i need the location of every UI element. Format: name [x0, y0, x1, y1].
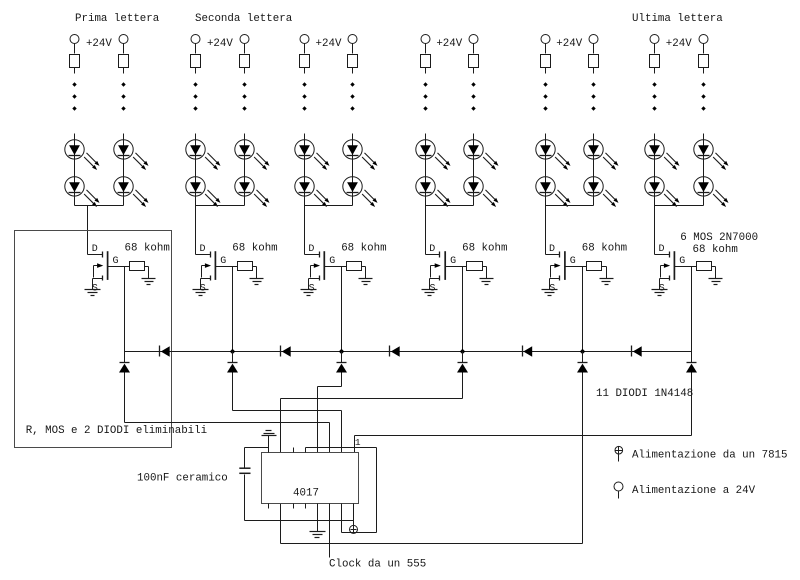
ground (4017 bottom pin) [310, 532, 326, 538]
resistor R6a (LED series) [650, 55, 660, 68]
svg-text:+24V: +24V [316, 38, 342, 50]
LED D5a1 [536, 140, 571, 170]
svg-text:R, MOS e 2 DIODI eliminabili: R, MOS e 2 DIODI eliminabili [26, 425, 207, 437]
resistor Rg1 68 kohm [130, 262, 145, 271]
svg-text:Prima lettera: Prima lettera [75, 13, 160, 25]
svg-text:D: D [200, 244, 206, 255]
+24V supply terminal column 4a [421, 35, 430, 44]
wire (column1 diode to 4017) [125, 373, 330, 453]
wire [87, 206, 89, 255]
svg-text:D: D [549, 244, 555, 255]
resistor R3b (LED series) [348, 55, 358, 68]
svg-text:D: D [659, 244, 665, 255]
svg-text:11 DIODI 1N4148: 11 DIODI 1N4148 [596, 388, 693, 400]
wire [244, 134, 246, 206]
wire [352, 134, 354, 206]
7815 supply terminal (+ in circle) [350, 525, 358, 533]
resistor R3a (LED series) [300, 55, 310, 68]
+24V supply terminal column 3b [348, 35, 357, 44]
wire [691, 267, 693, 352]
wire [317, 504, 319, 532]
LED D5a2 [536, 177, 571, 207]
wire [74, 134, 76, 206]
wire [462, 352, 464, 363]
n-MOSFET Q6 (2N7000) [655, 251, 692, 289]
wire [426, 205, 474, 207]
dashed enclosure box (eliminable parts) [15, 231, 172, 448]
diode D4 (bus, 1N4148) [523, 346, 533, 357]
wire [654, 44, 656, 54]
wire [253, 267, 257, 279]
svg-text:Seconda lettera: Seconda lettera [195, 13, 293, 25]
LED D2a2 [186, 177, 221, 207]
wire [304, 68, 306, 74]
ground (source Q2) [193, 290, 209, 296]
n-MOSFET Q1 (2N7000) [88, 251, 125, 289]
svg-text:Alimentazione a 24V: Alimentazione a 24V [632, 485, 756, 497]
svg-text:100nF ceramico: 100nF ceramico [137, 473, 228, 485]
resistor Rg5 68 kohm [587, 262, 602, 271]
wire [425, 44, 427, 54]
+24V supply terminal column 5a [541, 35, 550, 44]
wire (column2 diode to 4017) [233, 373, 342, 453]
wire [74, 44, 76, 54]
junction node [339, 349, 344, 354]
resistor Rg6 68 kohm [697, 262, 712, 271]
svg-text:G: G [570, 256, 576, 267]
wire [232, 352, 234, 363]
LED D1b1 [114, 140, 149, 170]
wire [582, 352, 584, 363]
diode D9 (column 4, 1N4148) [457, 363, 468, 373]
wire [245, 448, 269, 468]
diode D3 (bus, 1N4148) [390, 346, 400, 357]
wire [244, 44, 246, 54]
continuation dots [471, 82, 475, 110]
LED D5b1 [584, 140, 619, 170]
wire [703, 44, 705, 54]
wire [123, 134, 125, 206]
wire [196, 205, 245, 207]
legend symbol: 24V supply [614, 482, 623, 499]
wire [462, 267, 464, 352]
wire [304, 44, 306, 54]
wire [703, 68, 705, 74]
wire [545, 68, 547, 74]
ground (source Q4) [422, 290, 438, 296]
svg-text:G: G [113, 256, 119, 267]
resistor R1b (LED series) [119, 55, 129, 68]
wire [124, 352, 126, 363]
wire [341, 352, 343, 363]
pin stub [268, 504, 270, 509]
diode D1 (bus, 1N4148) [160, 346, 170, 357]
svg-text:G: G [220, 256, 226, 267]
continuation dots [193, 82, 197, 110]
wire [353, 504, 355, 526]
svg-text:6 MOS 2N7000: 6 MOS 2N7000 [680, 232, 758, 244]
LED D6a2 [645, 177, 680, 207]
wire [473, 68, 475, 74]
svg-text:+24V: +24V [556, 38, 582, 50]
wire [304, 206, 306, 255]
continuation dots [121, 82, 125, 110]
ground (4017 top pin) [262, 431, 277, 436]
LED D3a1 [295, 140, 330, 170]
wire [123, 68, 125, 74]
svg-text:+24V: +24V [666, 38, 692, 50]
wire [195, 44, 197, 54]
continuation dots [302, 82, 306, 110]
wire [473, 134, 475, 206]
wire [545, 134, 547, 206]
wire [654, 206, 656, 255]
svg-text:Alimentazione da un 7815: Alimentazione da un 7815 [632, 450, 788, 462]
wire [125, 266, 130, 268]
resistor R4b (LED series) [469, 55, 479, 68]
junction node [460, 349, 465, 354]
pin stub [305, 504, 307, 509]
resistor R1a (LED series) [70, 55, 80, 68]
LED D4b2 [464, 177, 499, 207]
wire [593, 134, 595, 206]
diode D7 (column 2, 1N4148) [227, 363, 238, 373]
wire [703, 134, 705, 206]
ground (source Q1) [85, 290, 101, 296]
+24V supply terminal column 4b [469, 35, 478, 44]
n-MOSFET Q5 (2N7000) [546, 251, 583, 289]
n-MOSFET Q2 (2N7000) [196, 251, 233, 289]
ground (resistor Rg3) [359, 279, 373, 285]
IC U1 4017 decade counter [262, 453, 359, 504]
wire [546, 205, 594, 207]
wire [245, 475, 354, 521]
wire (horizontal diode bus) [125, 351, 692, 353]
resistor R5a (LED series) [541, 55, 551, 68]
svg-text:+24V: +24V [86, 38, 112, 50]
wire [654, 68, 656, 74]
wire (column3 diode to 4017) [318, 373, 342, 453]
wire [712, 267, 716, 279]
resistor R4a (LED series) [421, 55, 431, 68]
pin stub [293, 504, 295, 509]
LED D4a2 [416, 177, 451, 207]
+24V supply terminal column 2a [191, 35, 200, 44]
capacitor C1 100nF ceramic [239, 468, 250, 473]
wire [195, 206, 197, 255]
wire [691, 352, 693, 363]
wire (column6 diode to 4017 pin 1) [355, 373, 692, 453]
LED D3a2 [295, 177, 330, 207]
svg-text:D: D [92, 244, 98, 255]
wire (column4 diode to 4017) [281, 373, 463, 453]
n-MOSFET Q3 (2N7000) [305, 251, 342, 289]
resistor Rg2 68 kohm [238, 262, 253, 271]
wire [341, 267, 343, 352]
wire [545, 206, 547, 255]
svg-text:Clock da un 555: Clock da un 555 [329, 559, 426, 571]
wire [583, 266, 587, 268]
pin stub [293, 448, 295, 453]
wire [244, 68, 246, 74]
resistor R6b (LED series) [699, 55, 709, 68]
svg-text:68 kohm: 68 kohm [582, 243, 627, 255]
+24V supply terminal column 6a [650, 35, 659, 44]
wire [75, 205, 124, 207]
LED D2b2 [235, 177, 270, 207]
continuation dots [591, 82, 595, 110]
wire [593, 68, 595, 74]
svg-text:+24V: +24V [207, 38, 233, 50]
LED D2b1 [235, 140, 270, 170]
wire (column5 diode to 4017) [281, 373, 583, 544]
wire [582, 267, 584, 352]
ground (resistor Rg1) [142, 279, 156, 285]
wire [473, 44, 475, 54]
wire [425, 68, 427, 74]
ground (source Q3) [301, 290, 317, 296]
LED D6b2 [694, 177, 729, 207]
ground (resistor Rg6) [709, 279, 723, 285]
wire [545, 44, 547, 54]
LED D1a2 [65, 177, 100, 207]
diode D11 (column 6, 1N4148) [686, 363, 697, 373]
svg-text:+24V: +24V [436, 38, 462, 50]
junction node [580, 349, 585, 354]
junction node [230, 349, 235, 354]
continuation dots [543, 82, 547, 110]
wire [483, 267, 487, 279]
wire [425, 134, 427, 206]
wire [195, 68, 197, 74]
LED D2a1 [186, 140, 221, 170]
diode D6 (column 1, 1N4148) [119, 363, 130, 373]
continuation dots [72, 82, 76, 110]
continuation dots [350, 82, 354, 110]
legend symbol: 7815 supply [615, 446, 623, 461]
LED D5b2 [584, 177, 619, 207]
wire [352, 68, 354, 74]
resistor R5b (LED series) [589, 55, 599, 68]
wire [74, 68, 76, 74]
resistor R2a (LED series) [191, 55, 201, 68]
ground (resistor Rg2) [250, 279, 264, 285]
wire [352, 44, 354, 54]
svg-text:D: D [429, 244, 435, 255]
ground (resistor Rg4) [480, 279, 494, 285]
svg-text:68 kohm: 68 kohm [462, 243, 507, 255]
svg-text:Ultima lettera: Ultima lettera [632, 13, 723, 25]
continuation dots [423, 82, 427, 110]
wire [304, 134, 306, 206]
wire [602, 267, 607, 279]
svg-text:G: G [679, 256, 685, 267]
svg-text:68 kohm: 68 kohm [693, 244, 738, 256]
wire (clock input) [329, 504, 331, 558]
wire [463, 266, 467, 268]
resistor R2b (LED series) [240, 55, 250, 68]
svg-text:1: 1 [355, 437, 361, 448]
LED D1b2 [114, 177, 149, 207]
wire [268, 436, 270, 453]
ground (source Q5) [542, 290, 558, 296]
diode D2 (bus, 1N4148) [281, 346, 291, 357]
continuation dots [652, 82, 656, 110]
diode D10 (column 5, 1N4148) [577, 363, 588, 373]
LED D1a1 [65, 140, 100, 170]
resistor Rg3 68 kohm [347, 262, 362, 271]
wire [305, 205, 353, 207]
LED D6b1 [694, 140, 729, 170]
ground (resistor Rg5) [600, 279, 614, 285]
wire [342, 266, 347, 268]
wire [654, 134, 656, 206]
wire [425, 206, 427, 255]
LED D3b2 [343, 177, 378, 207]
wire [655, 205, 704, 207]
wire [233, 266, 238, 268]
+24V supply terminal column 6b [699, 35, 708, 44]
LED D3b1 [343, 140, 378, 170]
continuation dots [701, 82, 705, 110]
svg-text:68 kohm: 68 kohm [232, 243, 277, 255]
svg-text:68 kohm: 68 kohm [125, 243, 170, 255]
diode D5 (bus, 1N4148) [632, 346, 642, 357]
wire [195, 134, 197, 206]
ground (source Q6) [652, 290, 668, 296]
LED D4b1 [464, 140, 499, 170]
+24V supply terminal column 5b [589, 35, 598, 44]
wire [124, 267, 126, 352]
diode D8 (column 3, 1N4148) [336, 363, 347, 373]
wire [145, 267, 149, 279]
resistor Rg4 68 kohm [467, 262, 483, 271]
svg-text:68 kohm: 68 kohm [341, 243, 386, 255]
LED D6a1 [645, 140, 680, 170]
continuation dots [242, 82, 246, 110]
+24V supply terminal column 1a [70, 35, 79, 44]
svg-text:G: G [329, 256, 335, 267]
wire [232, 267, 234, 352]
svg-text:4017: 4017 [293, 488, 319, 500]
+24V supply terminal column 2b [240, 35, 249, 44]
svg-text:D: D [308, 244, 314, 255]
wire [593, 44, 595, 54]
n-MOSFET Q4 (2N7000) [426, 251, 463, 289]
+24V supply terminal column 3a [300, 35, 309, 44]
svg-text:G: G [450, 256, 456, 267]
wire [362, 267, 366, 279]
wire [123, 44, 125, 54]
wire [692, 266, 697, 268]
LED D4a1 [416, 140, 451, 170]
+24V supply terminal column 1b [119, 35, 128, 44]
wire (VDD loop) [306, 448, 377, 533]
